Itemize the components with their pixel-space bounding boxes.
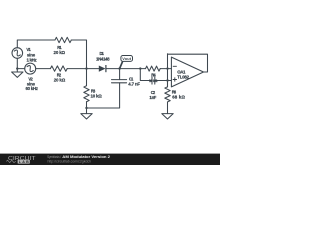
svg-text:R4: R4 (151, 72, 156, 77)
svg-text:Vout: Vout (122, 56, 132, 61)
svg-text:10 kΩ: 10 kΩ (149, 79, 158, 83)
svg-text:1N4148: 1N4148 (96, 56, 110, 61)
svg-text:10 kΩ: 10 kΩ (91, 94, 103, 99)
svg-text:68 kΩ: 68 kΩ (172, 95, 185, 100)
svg-text:20 kΩ: 20 kΩ (54, 50, 66, 55)
svg-text:4.7 nF: 4.7 nF (128, 81, 140, 86)
svg-text:D1: D1 (100, 51, 105, 56)
svg-text:http://circuitlab.com/c2gkdch: http://circuitlab.com/c2gkdch (48, 160, 92, 164)
svg-text:1 nF: 1 nF (149, 95, 156, 100)
svg-text:TL082: TL082 (177, 75, 189, 80)
svg-text:LAB: LAB (19, 160, 29, 164)
svg-text:1 kHz: 1 kHz (27, 57, 38, 62)
svg-text:20 kΩ: 20 kΩ (54, 78, 66, 83)
svg-text:R6: R6 (172, 89, 177, 94)
svg-text:60 kHz: 60 kHz (26, 86, 39, 91)
svg-text:V1: V1 (26, 47, 31, 52)
